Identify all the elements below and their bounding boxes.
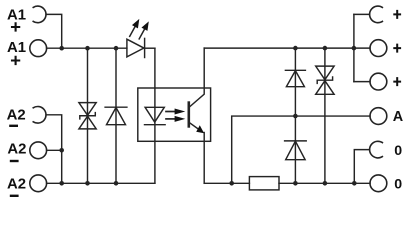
node junction rail/x61.7 [59, 181, 64, 186]
wire diode column D2/D3 [294, 48, 296, 183]
wire row2 main [47, 47, 127, 49]
plus sign right row1 [394, 11, 400, 18]
LED D5 emission arrow 1 [130, 19, 140, 36]
terminal A (circle) [370, 108, 387, 125]
node junction row2/x87.5 [85, 46, 90, 51]
wire row4 [47, 149, 62, 151]
wire input bottom rail [47, 182, 155, 184]
phototransistor Q1 base bar [188, 103, 191, 127]
node junction collector rail/x295.4 [293, 46, 298, 51]
node junction bottom rail/x324.9 [323, 181, 328, 186]
opto coupling arrow 2 [166, 116, 185, 122]
resistor R1 [249, 177, 279, 190]
LED D5 emission arrow 2 [139, 21, 149, 39]
wire output bottom rail left part [204, 182, 249, 184]
wire arc1 to row2 [46, 14, 62, 48]
terminal plus row2 (circle) [370, 40, 387, 57]
node junction bottom rail/x354.3 [352, 181, 357, 186]
wire to plus circle row3 [354, 81, 370, 83]
wire arc3 down [46, 115, 62, 184]
diode D2 [285, 70, 305, 86]
wire emitter down [203, 133, 205, 184]
minus sign row4 left [11, 160, 17, 162]
node junction rail/x87.5 [85, 181, 90, 186]
terminal A1 row2 (circle) [30, 40, 47, 57]
wire to plus arc [354, 13, 370, 15]
wire opto LED column vertical [154, 48, 156, 183]
svg-text:A: A [393, 109, 404, 125]
LED D5 triangle [127, 39, 144, 57]
wire A branch [232, 116, 370, 183]
svg-text:A1: A1 [7, 40, 26, 56]
opto coupling arrow 1 [166, 109, 185, 115]
wire 0 arc branch [354, 150, 369, 184]
phototransistor collector [189, 48, 204, 107]
terminal 0 row6 (circle) [370, 175, 387, 192]
terminal plus row1 (socket arc, right) [370, 6, 383, 23]
svg-text:A2: A2 [7, 142, 26, 158]
node junction emitter rail/x231.7 [229, 181, 234, 186]
wire TVS column left [87, 48, 89, 183]
diode D1 [105, 107, 127, 125]
terminal A2 row4 (circle) [30, 142, 47, 159]
plus sign row1 left [12, 23, 19, 30]
optocoupler box U1 [138, 88, 211, 141]
minus sign row3 left [10, 125, 16, 127]
plus sign row2 left [12, 57, 19, 64]
node junction row2/x61.7 [59, 46, 64, 51]
svg-text:0: 0 [394, 176, 402, 192]
opto LED cathode bar [145, 124, 166, 126]
node junction row4/x61.7 [59, 148, 64, 153]
node junction collector rail/x324.9 [323, 46, 328, 51]
terminal A1 row1 (socket arc) [33, 6, 46, 23]
node junction bottom rail/x295.4 [293, 181, 298, 186]
wire to plus circle row2 [354, 47, 370, 49]
node junction rail/x116 [114, 181, 119, 186]
terminal 0 row5 (socket arc, right) [370, 141, 383, 158]
terminal plus row3 (circle) [370, 73, 387, 90]
LED D5 cathode bar [144, 38, 146, 57]
svg-text:0: 0 [394, 143, 402, 159]
terminal A2 row3 (socket arc) [33, 107, 46, 124]
svg-text:A1: A1 [7, 8, 26, 24]
plus sign right row3 [394, 78, 400, 85]
terminal A2 row5 (circle) [30, 175, 47, 192]
wire TVS2 column [324, 48, 326, 183]
minus sign row5 left [11, 195, 17, 197]
wire plus-terminal group vertical [353, 14, 355, 81]
node junction row2/x116 [114, 46, 119, 51]
phototransistor emitter with arrow [189, 122, 204, 133]
node junction A-line/diode column [293, 114, 298, 119]
plus sign right row2 [394, 45, 400, 52]
opto LED triangle [145, 107, 164, 122]
wire LED to opto column [145, 47, 155, 49]
TVS suppressor V1 (bidirectional zener) [79, 103, 96, 129]
node junction collector rail/x353.9 [352, 46, 357, 51]
diode D3 [285, 141, 307, 160]
wire collector rail [204, 47, 354, 49]
wire diode D1 column [115, 48, 117, 183]
svg-text:A2: A2 [7, 107, 26, 123]
TVS suppressor V2 (bidirectional zener) [316, 66, 334, 94]
svg-text:A2: A2 [7, 177, 26, 193]
wire output bottom rail right part [279, 182, 370, 184]
